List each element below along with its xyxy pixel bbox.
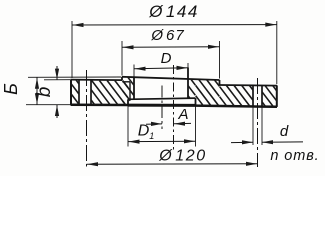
left bolt hole center line	[86, 70, 88, 167]
svg-text:b: b	[34, 87, 55, 98]
dimension b (plate thickness, rotated)	[44, 79, 70, 81]
svg-text:Ø144: Ø144	[148, 2, 199, 21]
svg-text:Ø120: Ø120	[158, 148, 207, 165]
plate bottom (thick)	[71, 103, 129, 106]
dimension A (bore eccentricity)	[146, 123, 162, 125]
svg-text:n отв.: n отв.	[270, 148, 319, 164]
bore D walls	[133, 77, 135, 99]
svg-text:Ø67: Ø67	[150, 27, 184, 44]
dimension B (total height, rotated)	[28, 76, 121, 78]
dimension d (bolt hole) with extensions	[252, 107, 254, 145]
svg-text:d: d	[280, 123, 289, 140]
dimension D (bore)	[133, 65, 135, 78]
right bolt hole walls	[252, 85, 254, 106]
hatching	[71, 94, 79, 104]
svg-text:A: A	[177, 106, 188, 123]
dimension diameter 120 (bolt circle)	[87, 163, 258, 165]
flange body outline (section)	[70, 80, 72, 106]
svg-text:Б: Б	[1, 83, 21, 95]
right bolt hole center line	[257, 78, 259, 167]
left bolt hole walls	[78, 80, 80, 105]
dimension diameter 67	[121, 41, 123, 76]
center axis of flange (dash-dot)	[173, 65, 175, 151]
ledge at bore mouth (left)	[122, 81, 130, 83]
dimension D1 (recess)	[127, 106, 129, 147]
recess D1 (counterbore) walls and ceiling	[127, 99, 129, 105]
svg-text:D: D	[161, 50, 172, 67]
bore axis / A reference line	[161, 86, 163, 130]
dimension diameter 144	[71, 21, 73, 78]
